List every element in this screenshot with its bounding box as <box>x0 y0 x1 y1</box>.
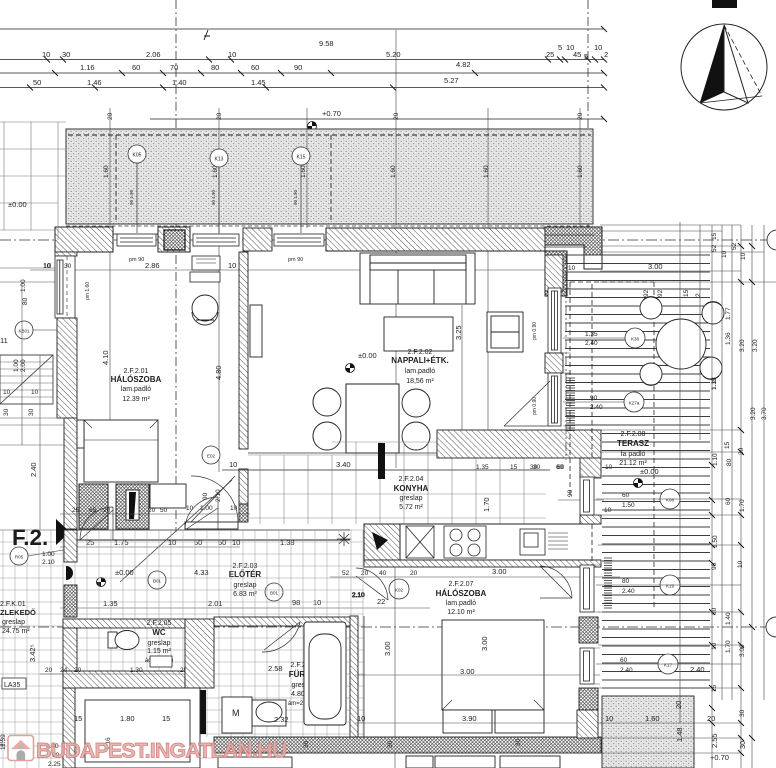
+0.70 level label <box>322 109 341 118</box>
door arc bathroom <box>262 622 300 652</box>
rotated 1.60 labels in roof <box>103 165 584 178</box>
top dimension labels row4 <box>33 76 459 87</box>
axis B dash-dot horizontal y=627 <box>0 626 776 628</box>
svg-text:52: 52 <box>711 244 718 252</box>
svg-text:20: 20 <box>577 112 584 120</box>
NE corner step box <box>584 255 602 269</box>
WC toilet <box>108 631 139 650</box>
axis line vertical x=176 dash-dot <box>175 0 177 532</box>
svg-text:1.77: 1.77 <box>725 307 732 320</box>
svg-text:greslap: greslap <box>148 640 171 647</box>
svg-text:2.40: 2.40 <box>585 340 598 347</box>
window bubble K19 <box>596 575 741 595</box>
south bedroom1 dim row <box>72 489 238 514</box>
dim labels west window <box>20 263 91 305</box>
svg-text:15: 15 <box>711 232 718 240</box>
svg-text:30: 30 <box>28 408 35 416</box>
svg-text:60: 60 <box>620 657 628 664</box>
svg-text:5: 5 <box>584 52 588 61</box>
svg-text:60: 60 <box>251 63 259 72</box>
svg-text:50: 50 <box>33 78 41 87</box>
WC door box <box>150 656 172 667</box>
svg-text:±0.00: ±0.00 <box>8 200 27 209</box>
svg-text:60: 60 <box>132 63 140 72</box>
svg-text:1.60: 1.60 <box>103 165 110 178</box>
bedroom2 east wall xhatch pillar2 <box>579 688 598 710</box>
window sill lines terrace side <box>563 288 600 684</box>
bottom-right stipple block <box>602 696 694 768</box>
svg-text:ZLEKEDŐ: ZLEKEDŐ <box>0 608 36 617</box>
svg-text:+0.70: +0.70 <box>322 109 341 118</box>
bedroom2 dims <box>357 636 489 723</box>
svg-text:25: 25 <box>72 507 80 514</box>
WC-bath divider wall <box>185 619 214 688</box>
svg-text:1.00: 1.00 <box>42 551 55 558</box>
svg-text:10: 10 <box>232 538 240 547</box>
flat entry door block <box>64 585 77 617</box>
svg-text:2.40: 2.40 <box>590 404 603 411</box>
corridor+hall tile grid <box>0 530 364 768</box>
svg-text:1.38: 1.38 <box>280 538 295 547</box>
black scale bar top right <box>712 0 737 8</box>
LA35 box <box>2 678 26 689</box>
svg-text:2.F.2.07: 2.F.2.07 <box>449 581 474 588</box>
svg-text:90: 90 <box>294 63 302 72</box>
svg-text:2.40: 2.40 <box>620 667 633 674</box>
svg-text:40: 40 <box>379 570 387 577</box>
living-terrace south wall band <box>437 430 601 458</box>
svg-text:1.10: 1.10 <box>712 453 719 466</box>
svg-text:10: 10 <box>357 714 365 723</box>
svg-text:6.83 m²: 6.83 m² <box>233 591 257 598</box>
svg-text:pm 1.60: pm 1.60 <box>85 282 91 300</box>
kitchen east wall window K08 <box>580 477 594 515</box>
svg-text:F.2.: F.2. <box>12 525 48 550</box>
svg-text:1.50: 1.50 <box>712 535 719 548</box>
svg-text:30: 30 <box>62 50 70 59</box>
svg-text:±0.00: ±0.00 <box>640 467 659 476</box>
bedroom1 armchair <box>192 295 218 325</box>
svg-text:90 1.90: 90 1.90 <box>211 189 216 205</box>
svg-text:5.27: 5.27 <box>444 76 459 85</box>
svg-text:10: 10 <box>3 389 11 396</box>
svg-text:12.10 m²: 12.10 m² <box>447 609 475 616</box>
svg-text:30: 30 <box>739 709 746 717</box>
svg-text:3.00: 3.00 <box>492 567 507 576</box>
svg-text:10: 10 <box>605 714 613 723</box>
watermark house icon <box>8 736 34 761</box>
svg-text:3.00: 3.00 <box>383 641 392 656</box>
svg-text:1.40: 1.40 <box>725 612 732 625</box>
svg-text:2.55: 2.55 <box>710 733 719 748</box>
svg-text:90: 90 <box>711 562 718 570</box>
svg-text:4.10: 4.10 <box>101 350 110 365</box>
svg-text:2.F.K.01: 2.F.K.01 <box>0 601 26 608</box>
svg-text:65: 65 <box>89 507 97 514</box>
svg-text:52: 52 <box>731 242 738 250</box>
svg-text:1.12: 1.12 <box>711 377 718 390</box>
living TV cabinet <box>250 305 262 357</box>
svg-text:30: 30 <box>303 740 310 748</box>
wall end dark block <box>239 504 248 522</box>
svg-text:R05: R05 <box>15 555 24 560</box>
terrace deck boards upper <box>565 255 710 425</box>
svg-text:25: 25 <box>86 538 94 547</box>
svg-text:2.F.2.02: 2.F.2.02 <box>408 349 433 356</box>
svg-text:30: 30 <box>64 263 72 270</box>
svg-text:10: 10 <box>721 250 728 258</box>
svg-text:1.70: 1.70 <box>482 497 491 512</box>
svg-text:±0.00: ±0.00 <box>115 568 134 577</box>
kitchen floor tile grid <box>248 442 546 524</box>
svg-text:30: 30 <box>515 738 522 746</box>
svg-text:10: 10 <box>737 560 744 568</box>
svg-text:2.40: 2.40 <box>690 665 705 674</box>
window W1 frame <box>113 234 160 246</box>
svg-text:1.16: 1.16 <box>80 63 95 72</box>
bedroom1 door leaf diagonal <box>191 476 235 522</box>
svg-text:22: 22 <box>377 597 385 606</box>
svg-text:KONYHA: KONYHA <box>394 484 429 493</box>
svg-text:10: 10 <box>228 261 236 270</box>
svg-text:M: M <box>232 708 240 718</box>
svg-text:2.86: 2.86 <box>145 261 160 270</box>
door bubble B01 <box>148 571 166 589</box>
dim 2.86 row <box>43 261 400 270</box>
svg-text:10: 10 <box>228 50 236 59</box>
door arc corridor-elotér <box>80 497 218 540</box>
kitchen counter: fridge block <box>364 524 400 560</box>
construction verticals over stipple <box>110 129 580 224</box>
svg-text:1.70: 1.70 <box>739 499 746 512</box>
svg-text:10: 10 <box>31 389 39 396</box>
north facade wall band <box>30 226 602 296</box>
svg-text:E02: E02 <box>207 454 216 459</box>
svg-text:1.75: 1.75 <box>114 538 129 547</box>
kitchen dim row <box>342 570 418 577</box>
right edge grid bubbles <box>766 230 776 637</box>
svg-text:3.00: 3.00 <box>480 636 489 651</box>
svg-text:80: 80 <box>622 578 630 585</box>
living room sofa <box>360 253 475 304</box>
east vent grille <box>604 558 612 608</box>
svg-text:3.00: 3.00 <box>739 644 746 657</box>
bedroom1/living wall hatch lower <box>239 469 248 504</box>
svg-text:3.00: 3.00 <box>460 667 475 676</box>
svg-text:60: 60 <box>556 464 564 471</box>
svg-text:1.00: 1.00 <box>13 359 20 372</box>
svg-text:20: 20 <box>410 570 418 577</box>
living level marker <box>346 364 355 373</box>
svg-text:ELŐTÉR: ELŐTÉR <box>229 570 262 579</box>
svg-text:1.48: 1.48 <box>675 727 684 742</box>
bottom-right dims <box>605 701 747 762</box>
svg-text:2.F.2.03: 2.F.2.03 <box>233 563 258 570</box>
svg-text:HÁLÓSZOBA: HÁLÓSZOBA <box>436 589 487 598</box>
bottom partial rooms <box>218 756 560 768</box>
south bottom wall band <box>214 737 601 753</box>
kitchen dim row2 top <box>476 464 565 471</box>
svg-text:4.82: 4.82 <box>456 60 471 69</box>
bedroom1 west wall upper hatch <box>55 252 77 256</box>
dimension tick marks top <box>27 26 607 122</box>
door bubble B02 <box>265 583 283 601</box>
svg-text:60: 60 <box>622 492 630 499</box>
svg-text:20: 20 <box>674 701 683 709</box>
dining table <box>346 384 399 453</box>
svg-text:pm 90: pm 90 <box>129 257 144 263</box>
svg-text:20: 20 <box>107 112 114 120</box>
svg-text:10: 10 <box>42 50 50 59</box>
svg-text:15: 15 <box>74 714 82 723</box>
svg-text:1.30: 1.30 <box>130 667 143 674</box>
WC west wall <box>63 628 77 688</box>
svg-text:5.72 m²: 5.72 m² <box>399 504 423 511</box>
svg-text:NAPPALI+ÉTK.: NAPPALI+ÉTK. <box>391 356 448 365</box>
svg-text:K08: K08 <box>666 498 675 503</box>
svg-text:30: 30 <box>738 741 747 749</box>
svg-text:90: 90 <box>202 492 209 500</box>
black door leaf entry <box>129 492 136 519</box>
svg-text:2: 2 <box>604 50 608 59</box>
dim line under facade <box>30 269 560 271</box>
terrace deck boards lower <box>602 434 710 689</box>
bath east wall <box>350 616 358 737</box>
kitchen east wall pillar below K08 <box>580 515 601 524</box>
door swing bedroom2 <box>540 566 572 598</box>
svg-text:pm 0.90: pm 0.90 <box>532 322 538 340</box>
south wall dim labels <box>533 464 613 514</box>
door arc bedroom2 <box>540 566 572 598</box>
corridor wall lower <box>63 688 77 768</box>
svg-text:5.20: 5.20 <box>386 50 401 59</box>
svg-text:92: 92 <box>657 289 664 297</box>
svg-text:10: 10 <box>229 460 237 469</box>
svg-text:50: 50 <box>194 538 202 547</box>
svg-text:3.90: 3.90 <box>462 714 477 723</box>
svg-text:98: 98 <box>292 598 300 607</box>
svg-text:80: 80 <box>22 297 29 305</box>
svg-text:B01: B01 <box>270 591 279 596</box>
svg-text:pm 90: pm 90 <box>288 257 303 263</box>
living-terrace east wall with windows <box>532 255 563 426</box>
svg-text:2.F.2.04: 2.F.2.04 <box>399 476 424 483</box>
svg-text:1.35: 1.35 <box>103 599 118 608</box>
flat west wall upper segment <box>64 530 77 562</box>
level marker +0.70 <box>308 122 317 131</box>
R5 bubble <box>10 547 75 566</box>
svg-text:greslap: greslap <box>2 619 25 626</box>
top dimension labels row1 <box>319 39 334 48</box>
bath dims <box>268 664 289 724</box>
svg-text:15: 15 <box>162 714 170 723</box>
bottom dims small <box>0 738 522 768</box>
svg-text:90: 90 <box>590 395 598 402</box>
svg-text:pm 0.90: pm 0.90 <box>532 397 538 415</box>
bedroom2 east wall window K19 <box>580 565 594 612</box>
roof dashed inner edges <box>68 135 591 222</box>
elotér walls top <box>63 530 350 540</box>
svg-text:4.33: 4.33 <box>194 568 209 577</box>
svg-text:1.00: 1.00 <box>200 505 213 512</box>
rotated 20 labels above roof <box>107 112 584 120</box>
window bubble K15 <box>292 147 310 233</box>
svg-text:2.10: 2.10 <box>215 489 222 502</box>
svg-text:2.32: 2.32 <box>274 715 289 724</box>
facade dashed edge <box>66 225 593 227</box>
ramp dims <box>3 350 110 477</box>
svg-text:2.10: 2.10 <box>42 559 55 566</box>
svg-text:50: 50 <box>160 507 168 514</box>
svg-text:30: 30 <box>533 464 541 471</box>
svg-text:15: 15 <box>724 441 731 449</box>
svg-text:2.01: 2.01 <box>208 599 223 608</box>
bedroom2 bed <box>442 620 544 733</box>
svg-text:3.40: 3.40 <box>336 460 351 469</box>
chimney inner block <box>164 230 185 250</box>
bedroom1 room label <box>111 368 162 403</box>
bedroom1/living wall hatch upper <box>239 252 248 449</box>
window E1 tall <box>548 288 561 353</box>
pillar hatch mid <box>545 353 563 373</box>
svg-text:20: 20 <box>361 570 369 577</box>
main axis A dash-dot horizontal y=240 <box>0 239 776 241</box>
door bubble E02 <box>202 446 220 464</box>
svg-text:1.70: 1.70 <box>725 640 732 653</box>
svg-text:greslap: greslap <box>234 582 257 589</box>
washing machine M <box>222 697 252 733</box>
NE corner inner hatch leg <box>545 251 567 296</box>
F.2. level label <box>12 519 70 550</box>
living coffee table <box>384 317 453 351</box>
right column horizontal ties <box>598 225 776 753</box>
elotér level marker <box>97 578 106 587</box>
svg-text:1.15 m²: 1.15 m² <box>147 648 171 655</box>
svg-text:80: 80 <box>726 458 733 466</box>
bedroom1 bed <box>77 420 158 482</box>
svg-text:30: 30 <box>387 740 394 748</box>
kitchen sink <box>520 529 568 555</box>
window bubble K13 <box>210 149 228 233</box>
kitchen east wall pillar above K08 <box>580 458 601 478</box>
lower balcony room left <box>75 688 200 768</box>
svg-text:K27a: K27a <box>629 401 640 406</box>
door swing corridor->elotér <box>80 480 232 582</box>
svg-text:20: 20 <box>74 667 82 674</box>
svg-text:10: 10 <box>568 265 576 272</box>
svg-text:2.F.2.08: 2.F.2.08 <box>621 431 646 438</box>
svg-text:K38: K38 <box>631 337 640 342</box>
svg-text:1.60: 1.60 <box>645 714 660 723</box>
svg-text:30: 30 <box>738 447 745 455</box>
svg-text:2.06: 2.06 <box>146 50 161 59</box>
svg-text:11: 11 <box>0 336 8 345</box>
svg-text:15: 15 <box>683 289 690 297</box>
svg-text:10: 10 <box>711 642 718 650</box>
svg-text:3.20: 3.20 <box>752 339 759 352</box>
kitchen counter: pantry X box <box>406 526 434 558</box>
door swing elotér->kitchen <box>352 576 388 600</box>
window bubble K05 <box>128 145 146 233</box>
window W3 frame <box>274 234 324 246</box>
WC bottom wall <box>63 671 185 688</box>
svg-text:20: 20 <box>393 112 400 120</box>
living dresser east <box>487 312 523 352</box>
terrace door swing into living <box>504 381 550 426</box>
top-left exterior tile grid <box>0 122 66 240</box>
terrace chairs <box>640 297 724 386</box>
svg-text:BUDAPEST.INGATLAN.HU: BUDAPEST.INGATLAN.HU <box>36 739 287 763</box>
west wall hatch lower <box>64 418 77 529</box>
kitchen room label <box>394 476 429 511</box>
svg-text:K19: K19 <box>666 584 675 589</box>
svg-text:1.40: 1.40 <box>172 78 187 87</box>
bath room label <box>288 662 318 707</box>
svg-text:2.00: 2.00 <box>20 359 27 372</box>
svg-text:lam.padló: lam.padló <box>446 600 476 607</box>
svg-text:10: 10 <box>168 538 176 547</box>
svg-text:11.39: 11.39 <box>0 734 7 750</box>
roof stipple band <box>66 129 593 224</box>
svg-text:1.80: 1.80 <box>120 714 135 723</box>
terrace round table <box>656 319 706 369</box>
svg-text:5: 5 <box>558 43 562 52</box>
black door leaf kitchen <box>378 443 385 479</box>
svg-text:1.60: 1.60 <box>577 165 584 178</box>
svg-text:3.42⁵: 3.42⁵ <box>28 644 37 662</box>
svg-text:45: 45 <box>573 50 581 59</box>
WC room label <box>145 620 174 664</box>
right column rotated labels <box>711 232 768 717</box>
svg-text:90 1.90: 90 1.90 <box>293 189 298 205</box>
svg-text:1.45: 1.45 <box>251 78 266 87</box>
bedroom1 cabinet top <box>190 256 220 282</box>
terrace room label <box>617 431 649 467</box>
svg-text:lam.padló: lam.padló <box>121 386 151 393</box>
exterior ramp hatched <box>0 355 53 404</box>
window W2 frame <box>193 234 239 246</box>
svg-text:10: 10 <box>43 263 51 270</box>
svg-text:1.35: 1.35 <box>585 331 598 338</box>
window bubble K17 <box>596 654 741 674</box>
svg-text:90: 90 <box>567 489 574 497</box>
chimney pier hatch <box>158 227 190 252</box>
svg-text:2.58: 2.58 <box>268 664 283 673</box>
top dimension labels row2 <box>42 43 608 61</box>
window bubble K38 <box>563 328 645 348</box>
svg-text:2.F.2.05: 2.F.2.05 <box>147 620 172 627</box>
bedroom1 door sill <box>185 522 238 529</box>
svg-text:1.60: 1.60 <box>390 165 397 178</box>
top dimension labels row3 <box>80 60 471 72</box>
left edge rotated small dims bottom <box>0 734 112 750</box>
svg-text:10: 10 <box>186 505 194 512</box>
bedroom2 east wall hatch lower <box>577 710 598 738</box>
svg-text:3.70: 3.70 <box>761 407 768 420</box>
svg-text:20: 20 <box>148 507 156 514</box>
right column tick marks <box>709 243 755 756</box>
axis line vertical x=588 dash-dot <box>587 0 589 228</box>
svg-text:92: 92 <box>643 289 650 297</box>
svg-text:K13: K13 <box>215 157 224 163</box>
svg-text:20: 20 <box>45 667 53 674</box>
WC top wall <box>63 619 185 628</box>
kitchen stove <box>444 526 486 558</box>
svg-text:1.35: 1.35 <box>476 464 489 471</box>
svg-text:9.58: 9.58 <box>319 39 334 48</box>
bedroom2 east wall xhatch pillar <box>579 617 598 643</box>
svg-text:15: 15 <box>510 464 518 471</box>
